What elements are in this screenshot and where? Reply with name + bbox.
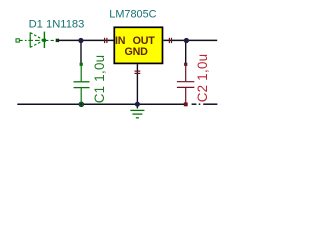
svg-text:GND: GND: [125, 46, 149, 58]
svg-text:OUT: OUT: [133, 35, 156, 47]
svg-text:D1 1N1183: D1 1N1183: [29, 19, 85, 31]
svg-text:C1 1,0u: C1 1,0u: [92, 55, 107, 104]
svg-text:LM7805C: LM7805C: [109, 9, 156, 21]
svg-text:IN: IN: [115, 35, 125, 47]
svg-text:C2 1,0u: C2 1,0u: [195, 54, 210, 103]
